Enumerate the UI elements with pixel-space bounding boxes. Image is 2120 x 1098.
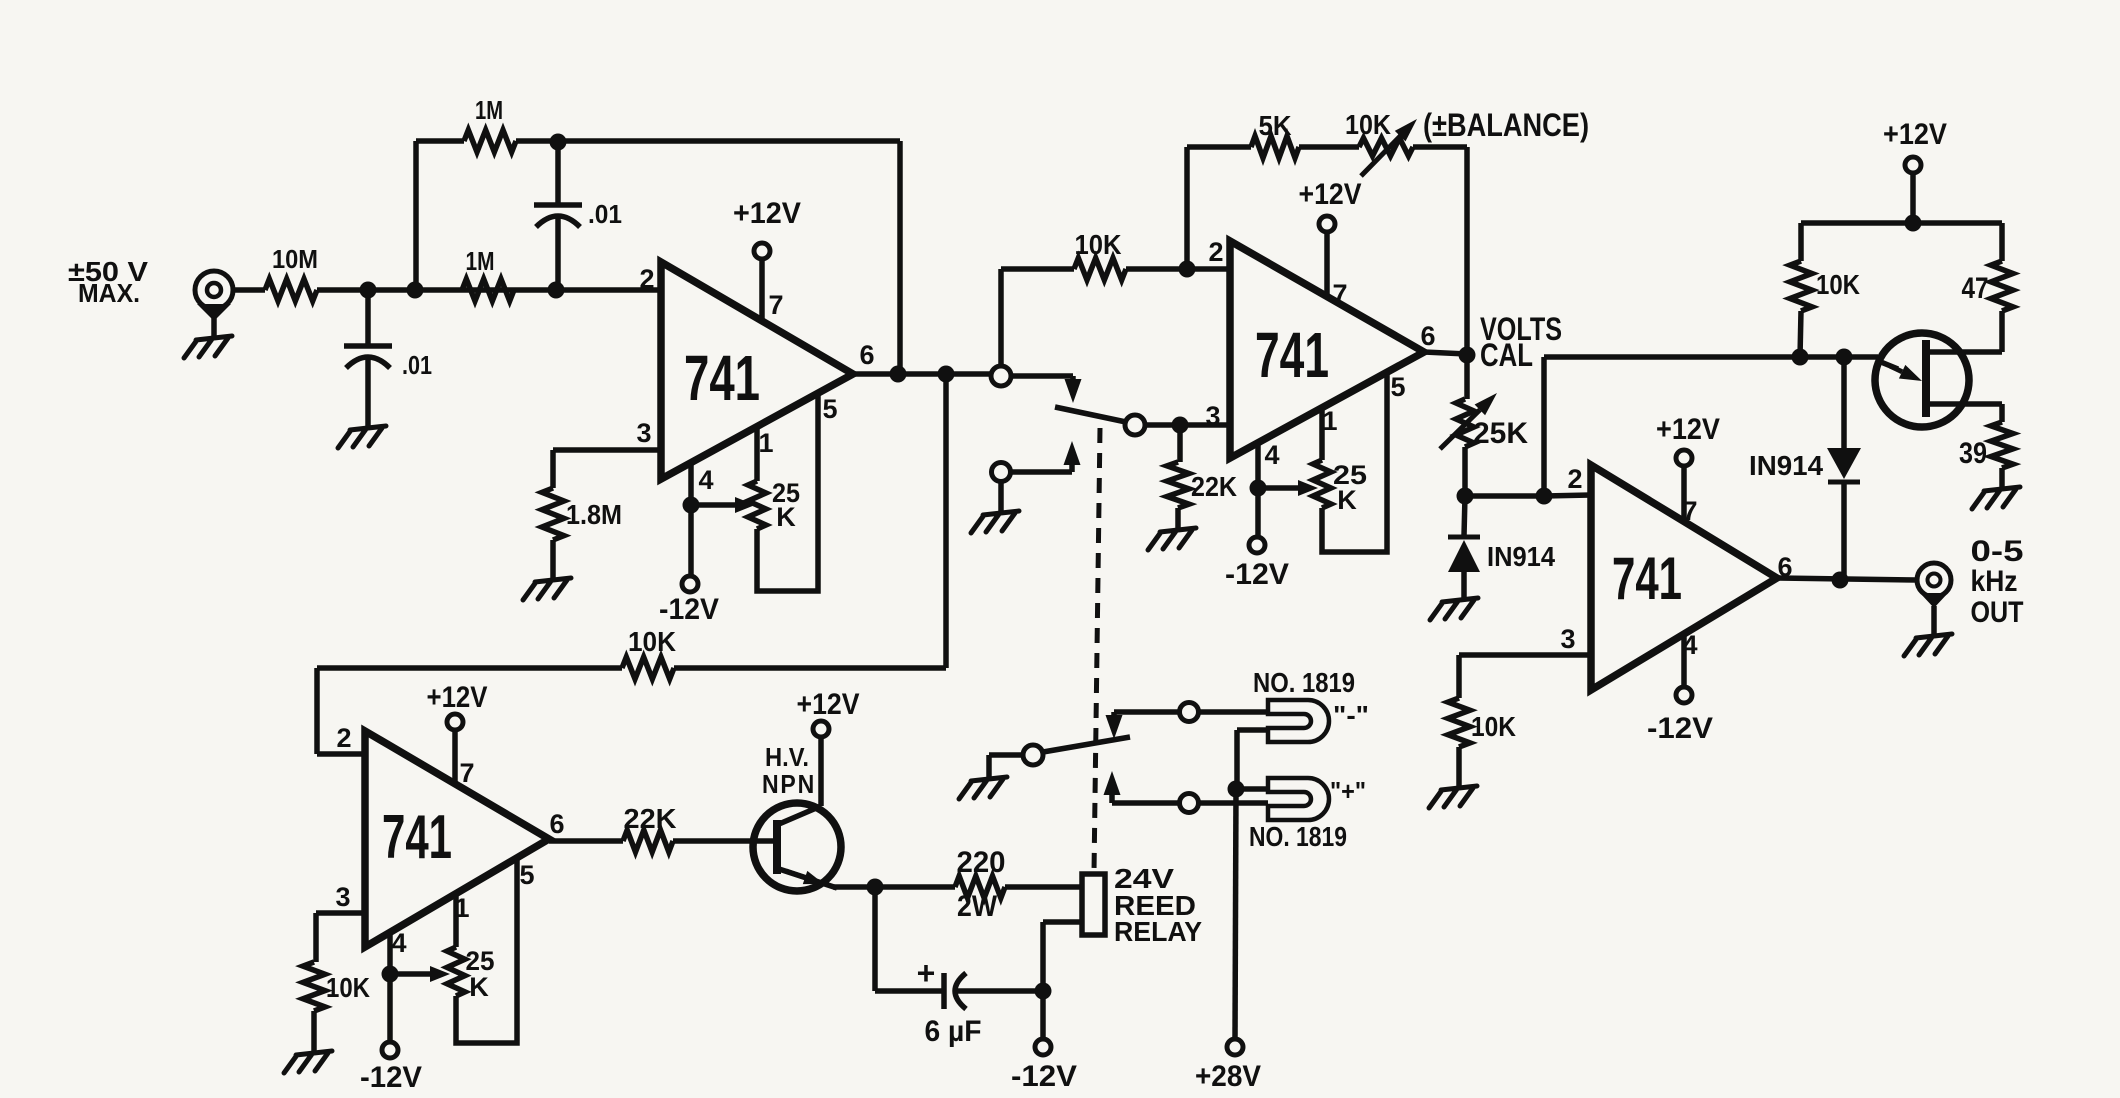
wire pin3 corner down <box>550 450 556 488</box>
-12V terminal (relay) <box>1035 1039 1051 1055</box>
svg-text:"+": "+" <box>1330 776 1366 806</box>
wire R10 to base line <box>1800 311 1801 357</box>
svg-text:K: K <box>1337 485 1357 515</box>
svg-text:5: 5 <box>519 860 534 890</box>
wire corner to R6 <box>1001 266 1074 272</box>
wire K4 contact <box>1010 469 1072 475</box>
node P (base/10K) <box>1792 349 1809 366</box>
svg-text:7: 7 <box>459 758 474 788</box>
dashed actuation link <box>1094 428 1100 872</box>
op-amp U2 741 <box>1230 241 1424 458</box>
switch S1 lower arrow <box>1064 441 1081 465</box>
wiper arrow U1 pot <box>699 502 737 508</box>
wire node L down to D1 <box>1464 496 1465 536</box>
node Q (base/diode) <box>1836 349 1853 366</box>
wire K3 up to 10K <box>998 269 1004 366</box>
output connector J2 <box>1917 563 1951 597</box>
svg-text:2: 2 <box>1567 464 1582 494</box>
svg-text:RELAY: RELAY <box>1114 916 1202 947</box>
svg-text:2: 2 <box>336 723 351 753</box>
+12V terminal U3 <box>447 714 463 730</box>
wire to C3 <box>875 988 944 994</box>
svg-text:7: 7 <box>1332 279 1347 309</box>
svg-text:NPN: NPN <box>762 769 816 799</box>
ground (S2) <box>959 777 1007 799</box>
svg-text:2W: 2W <box>957 890 998 923</box>
switch S2 lever <box>1043 737 1130 752</box>
node L <box>1457 488 1474 505</box>
wire node T to -12V <box>1040 991 1046 1039</box>
svg-text:1M: 1M <box>475 95 503 125</box>
switch S1 lower contact K4 <box>992 463 1011 482</box>
svg-text:6: 6 <box>1420 321 1435 351</box>
node R (U3 pin4) <box>382 966 399 983</box>
svg-text:741: 741 <box>382 803 452 872</box>
ground (R13) <box>284 1051 332 1073</box>
wire P3 loop <box>456 858 517 1043</box>
wire C1 to ground <box>365 357 371 426</box>
wire feedback corner to U3 pin2 <box>314 668 320 754</box>
svg-text:4: 4 <box>391 928 406 958</box>
wire U4 output <box>1777 578 1917 580</box>
resistor R1 10M <box>265 279 317 301</box>
node B (divider) <box>407 282 424 299</box>
lamp DS2 feed wire <box>1236 786 1268 792</box>
svg-text:6: 6 <box>549 809 564 839</box>
wire pin1 to P3 <box>453 894 459 947</box>
wire +12V rail <box>1801 220 2002 226</box>
resistor R7 5K <box>1251 136 1299 158</box>
wire U2 pin4 <box>1255 443 1261 488</box>
resistor R6 10K (U2 input) <box>1074 258 1126 280</box>
svg-text:.01: .01 <box>588 199 622 229</box>
wire U3 pin3 <box>316 910 365 916</box>
wire pin3 corner down (U4) <box>1456 655 1462 698</box>
svg-text:5: 5 <box>822 394 837 424</box>
wire U3 pin4 <box>387 932 393 974</box>
wire node B up <box>413 141 419 290</box>
ground (input connector) <box>184 336 232 358</box>
resistor R11 47 <box>1991 261 2013 311</box>
node G (output junction) <box>938 366 955 383</box>
reed relay coil <box>1082 874 1105 935</box>
+12V terminal U1 <box>754 243 770 259</box>
svg-text:-12V: -12V <box>1011 1060 1077 1093</box>
svg-text:7: 7 <box>768 290 783 320</box>
wire U1 pin3 <box>553 447 661 453</box>
ground (R8) <box>1148 528 1196 550</box>
wire U3 output <box>546 839 552 841</box>
svg-text:+12V: +12V <box>1656 413 1720 446</box>
svg-text:H.V.: H.V. <box>765 742 809 772</box>
switch S1 upper contact arrow <box>1065 379 1082 403</box>
svg-text:6 µF: 6 µF <box>925 1015 982 1048</box>
svg-text:-12V: -12V <box>1225 558 1289 591</box>
wire R7 to P5 <box>1299 144 1359 150</box>
svg-text:741: 741 <box>1612 545 1682 612</box>
ground (J2) <box>1904 634 1952 656</box>
svg-text:10K: 10K <box>326 972 370 1003</box>
wire node L to node M <box>1465 493 1544 499</box>
svg-text:NO. 1819: NO. 1819 <box>1249 821 1347 852</box>
+12V terminal (top right) <box>1905 157 1921 173</box>
svg-text:+12V: +12V <box>797 688 860 721</box>
node M <box>1536 488 1553 505</box>
wire output down to 10K feedback <box>943 374 949 668</box>
-12V terminal U2 <box>1249 537 1265 553</box>
svg-text:-12V: -12V <box>659 593 719 626</box>
svg-text:39: 39 <box>1959 437 1987 470</box>
contact K3 (U1 output) <box>991 366 1011 386</box>
wire Q1 emitter out <box>833 884 882 890</box>
wire feedback horizontal <box>317 665 622 671</box>
wire P5 to corner <box>1413 144 1467 150</box>
wire R2 to corner <box>516 138 900 144</box>
svg-text:10K: 10K <box>1471 711 1516 742</box>
switch S2 pole contact <box>1023 745 1043 765</box>
ground (K4) <box>971 511 1019 533</box>
svg-text:+12V: +12V <box>733 197 801 230</box>
wire pin1 to P2 <box>1319 408 1325 460</box>
svg-text:NO. 1819: NO. 1819 <box>1253 667 1355 698</box>
ground (R9) <box>1429 786 1477 808</box>
svg-text:10K: 10K <box>1075 229 1122 260</box>
wire feedback down to U1 output <box>897 141 903 374</box>
wire K7 to lamp DS2 <box>1198 800 1268 806</box>
wire R12 to ground <box>1999 468 2005 487</box>
wire K6 to lamp DS1 <box>1198 709 1268 715</box>
wire R4 to ground <box>550 540 556 578</box>
op-amp U1 741 <box>661 262 853 479</box>
contact K7 <box>1180 794 1199 813</box>
wire R9 to ground <box>1456 747 1462 786</box>
S2 upper contact arrow <box>1106 715 1123 739</box>
wire lower contact <box>1112 800 1180 806</box>
wire U1 pin4 <box>688 463 694 505</box>
svg-text:3: 3 <box>1560 624 1575 654</box>
svg-text:kHz: kHz <box>1971 565 2018 598</box>
svg-text:K: K <box>776 502 796 532</box>
wire R14 to Q1 base <box>673 838 777 844</box>
node F (pin4) <box>683 497 700 514</box>
svg-text:22K: 22K <box>1191 471 1237 502</box>
wire R6 to U2 pin2 <box>1126 266 1230 272</box>
ground (D1) <box>1430 598 1478 620</box>
node A (R1 output) <box>360 282 377 299</box>
svg-text:CAL: CAL <box>1480 337 1533 373</box>
svg-text:741: 741 <box>684 342 760 414</box>
-12V terminal U4 <box>1676 687 1692 703</box>
resistor R13 10K (U3) <box>303 962 325 1011</box>
resistor R3 1M (input) <box>462 279 514 301</box>
Q2 emitter arrow <box>1876 360 1898 369</box>
Q1 collector <box>779 806 821 824</box>
ground (C1) <box>338 426 386 448</box>
wire K4 to ground <box>998 481 1004 511</box>
wire node M up to base line <box>1541 357 1547 496</box>
resistor R15 220 2W <box>955 876 1005 898</box>
wire C3 to node T <box>956 988 1043 994</box>
volts cal wiper arrow <box>1440 410 1480 449</box>
-12V terminal U3 <box>382 1042 398 1058</box>
lamp DS2 NO.1819 <box>1268 778 1329 820</box>
ground (R4) <box>523 578 571 600</box>
svg-text:1: 1 <box>758 428 773 458</box>
Q2 bottom lead <box>1926 401 2002 407</box>
resistor R4 1.8M <box>542 488 564 540</box>
capacitor C3 6uF <box>941 973 947 1009</box>
diode D1 1N914 <box>1448 535 1480 540</box>
wire balance down to output node <box>1464 147 1470 355</box>
wire U4 pin3 <box>1459 652 1591 658</box>
svg-text:3: 3 <box>636 418 651 448</box>
wire R11 to Q2 collector <box>1999 311 2005 352</box>
node O (+12V rail) <box>1905 215 1922 232</box>
wire node K down <box>1464 355 1470 399</box>
wire rail to R10 <box>1798 223 1804 261</box>
wire P1 loop <box>757 394 818 591</box>
contact K6 <box>1180 703 1199 722</box>
pot P2 25K body <box>1313 460 1331 508</box>
node D (feedback junction) <box>890 366 907 383</box>
svg-text:+28V: +28V <box>1195 1060 1261 1093</box>
svg-text:+12V: +12V <box>427 681 488 714</box>
transistor Q1 H.V. NPN <box>753 803 841 891</box>
+12V terminal U2 <box>1319 216 1335 232</box>
node J (U2 pin4) <box>1250 480 1267 497</box>
svg-text:22K: 22K <box>624 803 677 834</box>
svg-text:.01: .01 <box>402 350 432 380</box>
wire pin3 corner down (U3) <box>313 913 319 962</box>
wire R13 to ground <box>311 1011 317 1051</box>
wire S2 to ground <box>989 752 1023 758</box>
svg-text:0-5: 0-5 <box>1971 535 2024 568</box>
svg-text:4: 4 <box>1264 440 1279 470</box>
wire U4 pin4 to -12V <box>1681 634 1687 687</box>
pot P5 10K balance <box>1359 138 1413 156</box>
svg-text:"-": "-" <box>1333 700 1369 730</box>
wire pin4 to -12V (U3) <box>387 974 393 1042</box>
node C (top feedback) <box>550 134 567 151</box>
+12V terminal Q1 <box>813 721 829 737</box>
balance wiper arrow <box>1361 136 1400 176</box>
node I (U2 pin3) <box>1172 417 1189 434</box>
svg-text:4: 4 <box>698 465 713 495</box>
wire U1 output <box>853 371 991 377</box>
svg-text:K: K <box>469 972 489 1002</box>
svg-text:47: 47 <box>1962 272 1989 305</box>
wire S to R15 <box>882 884 955 890</box>
resistor R14 22K <box>623 830 673 852</box>
svg-text:5: 5 <box>1390 372 1405 402</box>
resistor R8 22K <box>1167 462 1189 508</box>
input connector J1 <box>195 271 233 309</box>
wire U2 output <box>1424 352 1467 354</box>
wire P6 to node L <box>1462 447 1468 496</box>
+28V terminal <box>1227 1039 1243 1055</box>
svg-text:10K: 10K <box>628 626 676 657</box>
diode D2 1N914 <box>1827 448 1861 479</box>
svg-text:+: + <box>917 955 936 991</box>
op-amp U4 741 <box>1591 465 1777 690</box>
-12V terminal U1 <box>682 576 698 592</box>
wire pin4 to -12V <box>688 505 694 576</box>
node E (1M/cap junction) <box>548 282 565 299</box>
svg-text:220: 220 <box>957 846 1006 879</box>
wire K5 to U2 pin3 <box>1145 422 1230 428</box>
capacitor C1 .01 <box>344 343 392 349</box>
svg-text:6: 6 <box>859 340 874 370</box>
svg-text:OUT: OUT <box>1971 596 2024 629</box>
wire P2 loop <box>1322 373 1387 552</box>
wire B corner to R2 <box>416 138 464 144</box>
pot P6 25K (volts cal) <box>1456 399 1474 447</box>
wire node M to U4 pin2 <box>1544 495 1591 496</box>
node K (VOLTS CAL) <box>1459 347 1476 364</box>
svg-text:-12V: -12V <box>360 1061 422 1094</box>
wire R15 to relay <box>1005 884 1082 890</box>
wire node S down <box>872 887 878 991</box>
resistor R10 10K <box>1790 261 1812 311</box>
svg-text:IN914: IN914 <box>1487 541 1555 572</box>
svg-text:10M: 10M <box>272 244 318 274</box>
wire +28V <box>1235 789 1236 1039</box>
lamp DS1 NO.1819 <box>1268 700 1329 742</box>
svg-text:-12V: -12V <box>1647 712 1713 745</box>
resistor R12 39 <box>1991 422 2013 468</box>
node U (+28V junction) <box>1228 781 1245 798</box>
pot P3 25K body <box>447 947 465 996</box>
wire node T up to relay <box>1040 922 1046 991</box>
svg-text:+12V: +12V <box>1299 178 1362 211</box>
svg-text:1.8M: 1.8M <box>566 499 622 530</box>
pot P1 25K body <box>748 481 766 529</box>
svg-text:(±BALANCE): (±BALANCE) <box>1423 107 1589 143</box>
svg-text:MAX.: MAX. <box>78 278 140 308</box>
+12V terminal U4 <box>1676 450 1692 466</box>
node S (emitter node) <box>867 879 884 896</box>
ground (R12) <box>1972 487 2020 509</box>
wire node A to C1 <box>365 297 371 344</box>
wire base line to transistor <box>1544 354 1878 360</box>
wiper arrow U3 pot <box>398 971 432 977</box>
wire J2 to ground <box>1931 606 1937 634</box>
Q1 emitter <box>779 869 837 888</box>
resistor R2 1M (feedback) <box>464 130 516 152</box>
resistor R5 10K (U3 feedback) <box>622 657 674 679</box>
S2 lower contact arrow <box>1104 771 1121 795</box>
wire corner to R7 <box>1187 144 1251 150</box>
transistor Q2 <box>1875 333 1969 427</box>
wire R8 to ground <box>1175 508 1181 528</box>
wire R1 to opamp U1 pin2 <box>317 287 661 293</box>
node H (U2 pin2) <box>1179 261 1196 278</box>
svg-text:10K: 10K <box>1345 109 1391 140</box>
svg-text:10K: 10K <box>1816 269 1860 300</box>
node N (U4 output) <box>1832 572 1849 589</box>
svg-text:2: 2 <box>639 264 654 294</box>
svg-text:2: 2 <box>1208 237 1223 267</box>
wire node H up to 5K <box>1184 147 1190 269</box>
lamp DS1 return wire <box>1237 727 1268 733</box>
wire connector to ground <box>211 318 217 336</box>
svg-text:3: 3 <box>335 882 350 912</box>
switch S1 lever <box>1055 407 1126 422</box>
switch S1 pole contact K5 <box>1125 415 1145 435</box>
wire pin4 to -12V (U2) <box>1255 488 1261 537</box>
svg-text:1M: 1M <box>466 246 495 276</box>
wire node I to 22K <box>1177 425 1183 462</box>
node T <box>1035 983 1052 1000</box>
wire upper contact <box>1114 709 1180 715</box>
wire connector to R1 <box>233 287 265 293</box>
wire D2 top <box>1841 357 1847 448</box>
wire pin1 to P1 <box>754 427 760 481</box>
svg-text:3: 3 <box>1205 401 1220 431</box>
wiper arrow U2 pot <box>1266 485 1300 491</box>
wire rail to R11 <box>1999 223 2005 261</box>
svg-text:741: 741 <box>1255 319 1329 391</box>
svg-text:+12V: +12V <box>1883 118 1947 151</box>
svg-text:5K: 5K <box>1259 110 1292 141</box>
svg-text:IN914: IN914 <box>1749 450 1823 481</box>
switch S1 upper contact wire <box>1011 373 1073 379</box>
resistor R9 10K (U4) <box>1448 698 1470 747</box>
op-amp U3 741 <box>365 731 549 947</box>
capacitor C2 .01 (feedback) <box>555 142 561 203</box>
svg-text:25K: 25K <box>1473 417 1528 450</box>
